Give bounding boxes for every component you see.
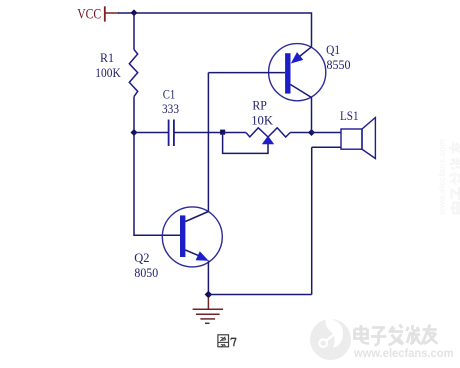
potentiometer RP wiper arrow [262,136,274,144]
svg-text:C1: C1 [163,87,176,102]
power VCC bar [104,6,106,21]
node C1-RP junction [220,130,225,135]
node ground junction [205,291,213,299]
wire top rail [118,13,312,47]
wire RP wiper return [223,133,268,154]
wire Q1base-Q2collector vertical [207,73,209,212]
wire Q2 emitter drop [207,261,209,295]
node VCC-R1 junction [131,9,138,16]
wire speaker return vertical [311,147,313,294]
watermark logo [310,318,351,360]
label figure 图7 [218,335,229,347]
svg-text:www.elecfans.com: www.elecfans.com [353,346,453,360]
svg-text:www.elecfans.com: www.elecfans.com [437,139,447,216]
svg-text:LS1: LS1 [340,108,359,123]
wire Q2 base branch [134,133,180,236]
svg-text:VCC: VCC [77,7,101,23]
resistor R1 [129,50,137,97]
transistor Q1 [269,44,326,101]
watermark right-edge faint [437,139,460,216]
ground stub [207,298,209,310]
wire ground rail [208,294,311,296]
transistor Q2 [162,207,222,267]
svg-text:100K: 100K [95,65,121,80]
potentiometer RP resistor body [246,128,290,137]
wire RP right lead [290,132,311,134]
wire C1 right lead [175,132,223,134]
node R1-C1-Q2base junction [131,129,138,136]
wire VCC lead [106,12,120,14]
wire C1 left lead [134,132,168,134]
svg-text:10K: 10K [251,112,273,127]
svg-text:8550: 8550 [327,57,351,72]
svg-text:8050: 8050 [134,265,158,280]
wire speaker bottom lead [312,146,341,148]
watermark text 电子发烧友 [355,325,438,346]
capacitor C1 [169,120,174,147]
speaker LS1 [341,118,375,159]
wire R1 top lead [133,13,135,50]
svg-text:R1: R1 [100,50,114,65]
svg-text:Q2: Q2 [134,250,149,265]
wire Q1 base horizontal [208,72,285,74]
wire Q1 collector drop [311,98,313,133]
wire RP left lead [223,132,246,134]
node RP-Q1-LS1 junction [308,129,315,136]
svg-text:RP: RP [252,97,267,112]
wire speaker top lead [312,132,342,134]
svg-text:Q1: Q1 [326,42,340,57]
svg-text:333: 333 [162,101,179,116]
ground [193,309,223,323]
wire R1 bottom lead [133,97,135,133]
